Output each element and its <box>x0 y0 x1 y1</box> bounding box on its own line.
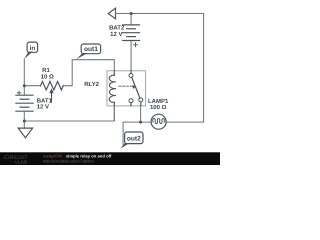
svg-text:http://circuitlab.com/c7p8sho: http://circuitlab.com/c7p8sho <box>43 158 94 163</box>
svg-text:R1: R1 <box>42 67 50 74</box>
svg-text:in: in <box>30 45 36 52</box>
svg-text:100 Ω: 100 Ω <box>150 104 167 111</box>
svg-text:∿LAB: ∿LAB <box>14 160 28 165</box>
svg-text:10 Ω: 10 Ω <box>41 73 54 80</box>
svg-text:RLY2: RLY2 <box>84 81 99 88</box>
svg-text:12 V: 12 V <box>110 31 122 38</box>
svg-text:12 V: 12 V <box>37 104 49 111</box>
svg-text:out2: out2 <box>127 136 141 143</box>
svg-text:out1: out1 <box>84 46 98 53</box>
svg-text:BAT2: BAT2 <box>109 25 125 32</box>
